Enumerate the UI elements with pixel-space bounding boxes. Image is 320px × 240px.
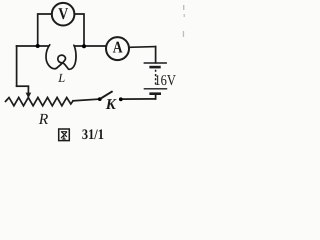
wiper arrow — [26, 86, 32, 98]
caption character tu (figure) — [59, 129, 70, 141]
edge specks — [183, 5, 185, 37]
battery plate short top — [149, 66, 160, 69]
inductor L — [46, 45, 76, 70]
battery plate long bottom — [144, 88, 168, 90]
switch K — [98, 91, 123, 101]
wire — [73, 99, 99, 101]
svg-text:L: L — [57, 71, 65, 85]
svg-text:A: A — [113, 38, 123, 57]
svg-text:16V: 16V — [154, 73, 176, 89]
wire — [155, 94, 157, 99]
node junction right — [82, 44, 86, 48]
node junction left — [36, 44, 40, 48]
wire — [76, 45, 106, 47]
wire — [17, 45, 48, 47]
battery plate short bottom — [149, 92, 161, 95]
wire — [155, 47, 157, 63]
wire — [16, 46, 18, 86]
rheostat R zigzag — [5, 98, 73, 106]
voltmeter V — [52, 3, 75, 26]
svg-text:V: V — [58, 4, 68, 23]
wire — [121, 98, 155, 100]
svg-text:R: R — [38, 111, 49, 128]
svg-text:31/1: 31/1 — [82, 127, 104, 143]
battery dotted line — [155, 70, 157, 85]
ammeter A — [106, 37, 129, 60]
wire — [38, 14, 52, 46]
wire — [75, 14, 84, 46]
wire — [129, 46, 156, 49]
battery B1 — [144, 63, 168, 94]
wire — [17, 85, 29, 87]
battery plate long top — [144, 62, 167, 64]
svg-text:K: K — [105, 97, 117, 113]
